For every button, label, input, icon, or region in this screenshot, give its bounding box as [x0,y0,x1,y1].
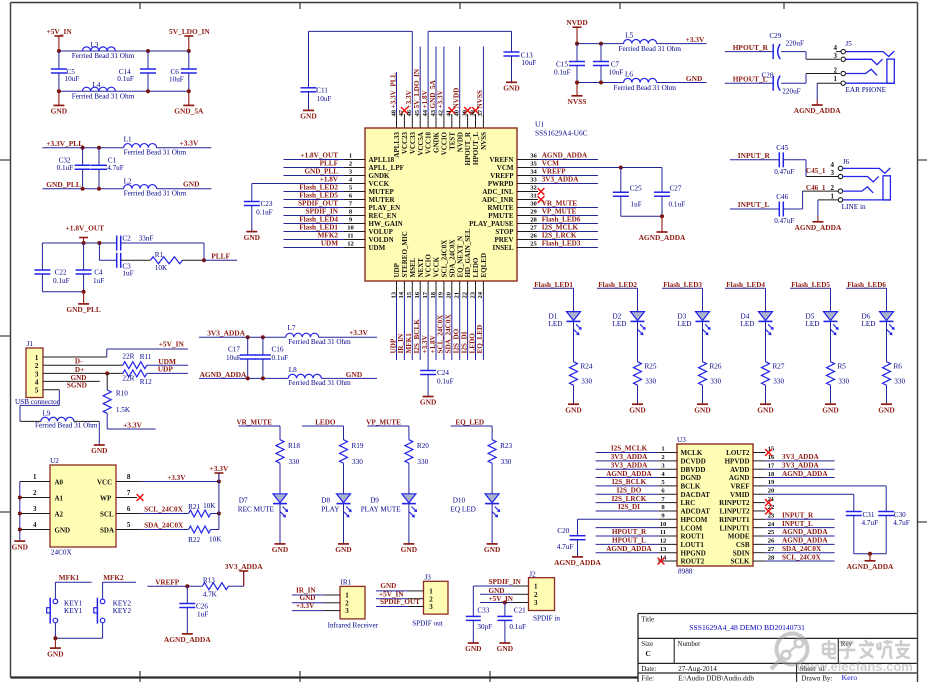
svg-text:C17: C17 [228,346,240,354]
svg-text:SSS1629A4_48 DEMO BD20140731: SSS1629A4_48 DEMO BD20140731 [689,623,805,632]
svg-text:1uF: 1uF [631,201,642,209]
U1 pin 47 VCC23 no-connect [398,107,409,154]
svg-text:+3.3V: +3.3V [296,602,315,610]
wire GND_PLL rail [42,188,211,190]
svg-text:Title: Title [641,616,654,624]
net label EQ_LED [451,418,493,426]
svg-text:47: 47 [398,109,405,116]
ground AGND_ADDA of J5 [794,99,841,115]
ground GND of D6 [878,404,894,414]
power port +3.3V pullups [210,464,229,482]
capacitor C23 0.1uF on +1.8V [244,184,284,232]
svg-text:LRC: LRC [681,499,696,507]
svg-text:L1: L1 [124,135,132,143]
svg-text:8: 8 [127,473,131,481]
svg-text:3: 3 [33,505,37,513]
svg-text:Number: Number [677,640,701,648]
svg-text:2: 2 [534,591,538,599]
svg-text:LEDO: LEDO [315,418,336,426]
svg-text:Ferried Bead 31 Ohm: Ferried Bead 31 Ohm [124,149,187,157]
U1 pin 15 MSEL wire net MFK1 [405,257,417,360]
svg-text:LINE in: LINE in [842,202,866,211]
capacitor C7 10uF [593,44,623,83]
svg-text:1.5K: 1.5K [116,406,131,414]
capacitor C4 1uF [76,243,105,292]
pin 4 wire GND [43,374,100,382]
connector IR1 Infrared Receiver [292,578,379,629]
svg-text:22R: 22R [122,353,134,361]
U3 pin 20 VMID [730,487,854,511]
svg-text:VCC5A: VCC5A [417,132,425,156]
net label Flash_LED2 [597,281,638,289]
LED D7 REC MUTE [238,494,288,544]
connector J2 SPDIF in [529,570,561,622]
svg-text:C21: C21 [514,606,526,614]
svg-text:Kero: Kero [842,673,858,682]
svg-text:10: 10 [660,521,667,528]
svg-text:C31: C31 [863,511,875,519]
svg-text:4: 4 [834,44,838,52]
ground AGND_ADDA of C25 C27 [639,216,686,242]
svg-text:AGND_ADDA: AGND_ADDA [782,537,828,545]
U3 pin 14 ROUT2 no-connect [658,554,705,565]
net label GND_PLL [46,180,81,189]
svg-text:16: 16 [768,454,775,461]
inductor L4 Ferried Bead 31 Ohm [72,81,135,101]
U3 pin 18 AGND [729,470,835,482]
svg-text:27: 27 [530,224,537,231]
svg-text:HPOUT_R: HPOUT_R [733,43,769,52]
svg-text:39: 39 [461,109,468,116]
svg-text:PLLF: PLLF [320,160,339,168]
net label GND of IR1 [300,594,316,602]
resistor R10 1.5K [103,373,131,429]
U3 pin 13 HPGND [596,545,706,557]
svg-text:R10: R10 [116,390,128,398]
svg-text:ROUT1: ROUT1 [681,533,705,541]
svg-text:VREFP: VREFP [490,172,514,180]
svg-text:34: 34 [530,168,537,175]
svg-text:C23: C23 [261,200,273,208]
svg-text:PREV: PREV [494,236,513,244]
svg-text:MODE: MODE [728,533,750,541]
wire NVDD rail [575,42,707,46]
svg-text:NVDD: NVDD [453,88,461,109]
svg-text:MUTEP: MUTEP [369,188,395,196]
svg-text:2: 2 [831,184,835,192]
pin 3 wire D+ [43,366,123,376]
svg-text:GND: GND [484,545,500,554]
net label Flash_LED3 [662,281,703,289]
svg-text:C33: C33 [477,606,489,614]
svg-text:VP_MUTE: VP_MUTE [366,418,401,426]
svg-text:Date:: Date: [641,665,656,673]
svg-text:R23: R23 [500,442,512,450]
svg-text:SPDIF_OUT: SPDIF_OUT [298,200,338,208]
svg-text:LED: LED [613,320,627,328]
svg-text:17: 17 [422,291,429,298]
svg-text:GND: GND [91,446,107,455]
svg-text:REC_EN: REC_EN [369,212,397,220]
svg-text:0.1uF: 0.1uF [509,623,526,631]
svg-text:I2S_DO: I2S_DO [617,486,642,494]
svg-text:330: 330 [289,458,300,466]
svg-text:L9: L9 [43,410,51,418]
capacitor C24 0.1uF on +3.3V [420,360,453,397]
net label MFK1 [55,574,91,582]
svg-text:INPUT_R: INPUT_R [782,512,814,520]
net label GND of J3 [380,582,396,590]
svg-text:I2S_DO: I2S_DO [453,328,461,353]
U1 pin 37 NVSS wire net NVSS [476,47,488,150]
svg-text:330: 330 [645,378,656,386]
ground AGND_ADDA of C20 [554,557,601,567]
svg-text:AGND_ADDA: AGND_ADDA [782,528,828,536]
svg-text:MUTER: MUTER [369,196,396,204]
svg-text:A1: A1 [55,494,64,502]
svg-text:MFK2: MFK2 [103,574,124,582]
svg-text:J1: J1 [27,340,34,348]
wire top rail +5V_IN to 5V_LDO_IN [59,50,189,52]
U2 pin 4 GND [20,521,70,534]
svg-text:D7: D7 [239,496,248,504]
wire bottom C31 C30 [854,552,886,556]
svg-text:C4: C4 [94,269,103,277]
U3 pin 11 ROUT1 [596,528,705,540]
ground GND of D4 [757,404,773,414]
svg-text:+3.3V: +3.3V [421,334,429,353]
U3 pin 12 LOUT1 [596,537,705,549]
svg-text:C20: C20 [557,527,569,535]
svg-text:45: 45 [414,109,421,116]
net label MFK2 [103,574,136,582]
capacitor C28 220uF polarized [762,72,801,96]
svg-text:VMID: VMID [730,491,749,499]
U3 pin 15 LOUT2 no-connect [726,446,775,457]
svg-text:19: 19 [768,479,775,486]
svg-text:SPDIF_IN: SPDIF_IN [489,578,522,586]
svg-text:0.1uF: 0.1uF [117,75,134,83]
svg-text:GND: GND [565,405,581,414]
svg-text:0.1uF: 0.1uF [272,354,289,362]
svg-text:ADC_INL: ADC_INL [482,188,513,196]
svg-text:+5V_IN: +5V_IN [47,27,73,36]
svg-text:D10: D10 [453,496,466,504]
net label SPDIF_OUT of J3 [380,598,420,606]
resistor R5 330 [827,362,850,405]
svg-text:Flash_LED2: Flash_LED2 [299,184,338,192]
svg-text:5: 5 [127,521,131,529]
svg-text:330: 330 [417,458,428,466]
svg-text:C22: C22 [55,269,67,277]
U2 pin 6 SCL wire net SCL_24C0X [100,505,189,518]
svg-text:GNDK: GNDK [369,172,391,180]
svg-text:VCCK: VCCK [433,256,441,277]
svg-text:20: 20 [446,291,453,298]
svg-text:RINPUT2: RINPUT2 [719,499,750,507]
svg-text:APLL18: APLL18 [369,156,395,164]
LED D4 [741,288,774,362]
svg-text:RMUTE: RMUTE [487,204,513,212]
svg-text:VREFN: VREFN [489,156,513,164]
svg-text:I2S_DI: I2S_DI [460,331,468,353]
net label GND of L8 [346,370,362,379]
svg-text:GND: GND [300,112,316,121]
svg-text:C16: C16 [272,346,284,354]
svg-text:AGND_ADDA: AGND_ADDA [606,470,652,478]
wire jack J5 pin 1 to AGND [817,83,841,99]
svg-text:0.1uF: 0.1uF [53,277,70,285]
capacitor C21 0.1uF [497,603,526,644]
svg-text:CSB: CSB [736,541,750,549]
U1 pin 33 PWRPD wire net 3V3_ADDA [488,176,598,188]
svg-text:3: 3 [429,603,433,611]
svg-text:APLL33: APLL33 [393,132,401,158]
svg-text:0.47uF: 0.47uF [774,217,794,225]
svg-text:INPUT_R: INPUT_R [738,151,771,160]
capacitor C46 0.47uF [774,193,794,225]
U1 pin 40 NVDD wire net NVDD [453,47,465,153]
svg-text:24C0X: 24C0X [51,549,73,557]
power label +5V_IN [159,339,185,348]
svg-text:C45_1: C45_1 [806,167,826,175]
svg-text:SCL_24C0X: SCL_24C0X [782,553,822,561]
svg-text:I2S_LRCK: I2S_LRCK [612,495,647,503]
net label UDP [158,364,174,373]
wire U1 pin 35 VCM to caps [619,166,662,193]
capacitor C3 1uF [99,243,150,278]
LED D9 PLAY MUTE [361,494,417,544]
svg-text:30: 30 [530,200,537,207]
svg-text:L7: L7 [288,324,296,332]
capacitor C27 0.1uF [654,185,685,217]
svg-text:AGND_ADDA: AGND_ADDA [542,152,588,160]
resistor R1 10K [150,251,204,272]
capacitor C33 30pF [466,586,492,643]
svg-text:L3: L3 [91,41,99,49]
svg-text:EQ LED: EQ LED [451,505,476,513]
svg-text:EQ_LED: EQ_LED [455,418,484,426]
watermark elecfans logo and text [771,634,913,675]
inductor L7 Ferried Bead 31 Ohm [286,324,351,346]
svg-text:10uF: 10uF [65,75,80,83]
svg-text:GND: GND [380,582,396,590]
svg-text:AGND_ADDA: AGND_ADDA [164,635,211,644]
U1 pin 35 VCM wire net VCM [497,160,662,172]
svg-text:GND: GND [629,405,645,414]
svg-text:+3.3V: +3.3V [349,328,368,337]
svg-text:29: 29 [530,208,537,215]
U1 pin 34 VREFP wire net VREFP [490,168,598,180]
svg-text:PLAY_PAUSE: PLAY_PAUSE [469,220,514,228]
switch KEY1 [47,582,83,638]
U1 pin 10 VOLUP wire net Flash_LED1 [284,224,394,236]
svg-text:IR_IN: IR_IN [397,333,405,353]
capacitor C16 0.1uF [255,337,288,378]
svg-text:VREF: VREF [730,483,749,491]
svg-text:GND_PLL: GND_PLL [304,168,338,176]
wire C29 to jack pin 3 [781,52,840,60]
net label HPOUT_R [725,43,773,52]
svg-text:R5: R5 [838,363,847,371]
LED D2 [613,288,646,362]
U3 pin 7 LRC [596,495,696,507]
wire jack J6 pin 1 to AGND [818,200,838,216]
svg-text:GND: GND [822,405,838,414]
resistor R12 22R [122,370,188,386]
svg-text:LCOM: LCOM [681,524,703,532]
svg-text:23: 23 [768,513,775,520]
svg-text:+3.3V: +3.3V [437,89,445,108]
resistor R25 330 [634,362,657,405]
svg-text:24: 24 [477,291,484,298]
U1 pin 23 LEDO wire net LEDO [468,257,480,360]
svg-text:28: 28 [768,554,775,561]
resistor R13 4.7K [202,571,243,598]
svg-text:GND: GND [272,545,288,554]
svg-text:C27: C27 [670,185,682,193]
svg-text:GND: GND [55,526,71,534]
svg-text:25: 25 [768,529,775,536]
net label VP_MUTE [366,418,409,426]
svg-text:VCC: VCC [97,478,112,486]
IC U2 24C0X body [50,457,116,556]
svg-text:UDM: UDM [369,244,386,252]
wire C11 to U1 pin 46 [309,30,413,32]
svg-text:U1: U1 [535,120,544,129]
svg-text:UDP: UDP [389,338,397,353]
svg-text:3: 3 [831,169,835,177]
svg-text:27: 27 [768,546,775,553]
U3 pin 28 SCLK [730,553,834,565]
svg-text:MFK1: MFK1 [405,333,413,354]
svg-text:Ferried Bead 31 Ohm: Ferried Bead 31 Ohm [35,422,98,430]
svg-text:INSEL: INSEL [492,244,513,252]
inductor L9 Ferried Bead 31 Ohm [20,410,99,445]
capacitor C29 220uF polarized [769,32,804,59]
svg-text:DCVDD: DCVDD [681,457,706,465]
capacitor C14 0.1uF [117,51,156,91]
svg-text:C46_1: C46_1 [806,184,826,192]
svg-text:GND: GND [183,180,199,189]
svg-text:3V3_ADDA: 3V3_ADDA [542,176,580,184]
svg-text:Ferried Bead 31 Ohm: Ferried Bead 31 Ohm [619,45,682,53]
svg-text:0.1uF: 0.1uF [256,209,273,217]
svg-text:REC MUTE: REC MUTE [238,505,275,513]
svg-text:MFK1: MFK1 [59,574,80,582]
svg-text:5V_LDO_IN: 5V_LDO_IN [413,68,421,108]
svg-text:4.7uF: 4.7uF [557,543,574,551]
svg-text:R1: R1 [155,251,164,259]
power port 3V3_ADDA [225,562,263,586]
net label LEDO [302,418,344,426]
capacitor C30 4.7uF [878,511,910,554]
U1 pin 27 STOP wire net I2S_MCLK [495,224,598,236]
net label GND of L6 [686,74,702,83]
node junctions on +3.3V_PLL rail [81,146,101,150]
svg-text:SPDIF_IN: SPDIF_IN [306,208,339,216]
inductor L8 Ferried Bead 31 Ohm [288,366,351,387]
svg-text:21: 21 [454,292,461,299]
net label HPOUT_L [725,75,773,84]
svg-text:Infrared Receiver: Infrared Receiver [328,622,379,630]
svg-text:GND_5A: GND_5A [174,107,204,116]
ground AGND_ADDA of C26 [164,634,211,644]
net label AGND_ADDA [200,370,247,379]
resistor R24 330 [570,362,593,405]
svg-text:GND: GND [300,594,316,602]
ground GND of C21 [497,643,513,653]
svg-text:E:\Audio DDB\Audio.ddb: E:\Audio DDB\Audio.ddb [678,675,754,682]
U3 pin 5 BCLK [596,478,701,490]
svg-text:35: 35 [530,160,537,167]
svg-text:26: 26 [530,232,537,239]
svg-text:LOUT1: LOUT1 [681,541,705,549]
svg-text:LED: LED [806,320,820,328]
ground GND of C11 [300,110,316,120]
svg-text:10: 10 [347,224,354,231]
svg-text:C: C [645,649,650,658]
svg-text:10K: 10K [203,502,216,510]
U3 pin 24 LINPUT1 [720,520,835,532]
wire +1.8V_OUT node rail [42,242,116,244]
svg-text:PLAY MUTE: PLAY MUTE [361,505,402,513]
svg-text:Ferried Bead 31 Ohm: Ferried Bead 31 Ohm [72,93,135,101]
svg-text:SPDIF_OUT: SPDIF_OUT [380,598,420,606]
svg-text:AGND_ADDA: AGND_ADDA [200,370,247,379]
svg-text:6: 6 [127,505,131,513]
U1 pin 22 HD_GAIN_SEL wire net I2S_DI [460,228,472,360]
svg-text:3V3_ADDA: 3V3_ADDA [782,453,820,461]
capacitor C6 10uF [169,51,197,91]
inductor L6 Ferried Bead 31 Ohm [614,71,677,93]
svg-text:L4: L4 [93,81,101,89]
svg-text:16: 16 [414,291,421,298]
svg-text:43: 43 [430,109,437,116]
U1 pin 25 INSEL wire net Flash_LED3 [492,240,598,252]
ground GND of C23 [244,232,260,242]
svg-text:SDA_24C0X: SDA_24C0X [445,314,453,354]
svg-text:HPGND: HPGND [681,549,706,557]
svg-text:13: 13 [390,291,397,298]
svg-text:1uF: 1uF [93,277,104,285]
power port NVDD [566,18,587,44]
ground GND of D8 [335,544,351,554]
U1 pin 24 EQLED wire net EQ_LED [476,253,488,360]
svg-text:SCL_24C0X: SCL_24C0X [437,314,445,354]
net label Flash_LED5 [790,281,831,289]
svg-text:+1.8V_OUT: +1.8V_OUT [66,224,105,233]
wire U2 address pins to GND [18,482,22,542]
svg-text:UDP: UDP [393,262,401,277]
capacitor C1 4.7uF [91,148,124,189]
U1 pin 11 VOLDN wire net MFK2 [284,232,394,244]
svg-text:GND: GND [694,405,710,414]
svg-text:Ferried Bead 31 Ohm: Ferried Bead 31 Ohm [288,338,351,346]
capacitor C45 0.47uF [774,144,794,176]
U2 pin 3 A2 [20,505,64,518]
svg-text:14: 14 [398,291,405,298]
svg-text:Ferried Bead 31 Ohm: Ferried Bead 31 Ohm [72,52,135,60]
svg-text:+3.3V: +3.3V [210,464,229,473]
capacitor C15 0.1uF [554,44,585,83]
U3 pin 9 HPCOM [578,513,708,524]
power label +3.3V of L7 [349,328,368,337]
svg-text:3: 3 [534,599,538,607]
svg-text:SGND: SGND [67,382,87,390]
ground port NVSS [568,83,587,107]
svg-text:11: 11 [660,529,666,536]
